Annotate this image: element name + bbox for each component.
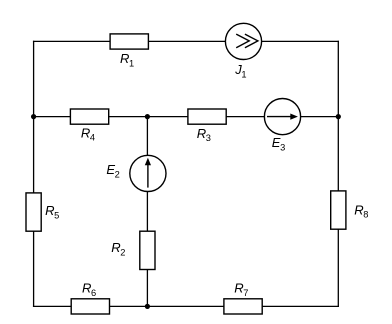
svg-text:E2: E2 xyxy=(106,162,119,179)
svg-text:E3: E3 xyxy=(272,135,285,152)
svg-text:R5: R5 xyxy=(45,203,59,220)
svg-text:R4: R4 xyxy=(81,125,95,142)
svg-text:R3: R3 xyxy=(197,126,211,143)
svg-text:R2: R2 xyxy=(111,240,125,257)
svg-text:R6: R6 xyxy=(82,281,96,298)
svg-text:R7: R7 xyxy=(234,281,248,298)
svg-text:R1: R1 xyxy=(120,51,134,68)
svg-text:R8: R8 xyxy=(354,202,368,219)
svg-text:J1: J1 xyxy=(234,62,246,79)
